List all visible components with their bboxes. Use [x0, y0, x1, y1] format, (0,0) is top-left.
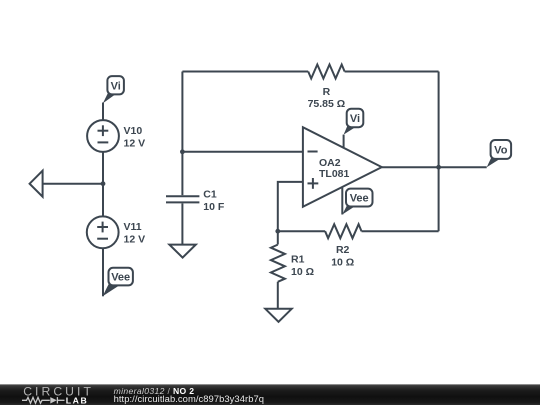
resistor R [308, 65, 344, 79]
wire plus input [278, 182, 303, 231]
CircuitLab logo resistor-diode glyph [22, 397, 65, 403]
svg-text:10 Ω: 10 Ω [291, 266, 314, 278]
ground (left) [30, 171, 103, 197]
net flag Vee (left source) [103, 268, 133, 296]
resistor R1 [271, 231, 285, 308]
voltage source V10 [87, 120, 119, 152]
svg-text:75.85 Ω: 75.85 Ω [308, 98, 346, 110]
wire V11-to-Vee [102, 248, 104, 296]
net flag Vo [487, 140, 511, 167]
svg-text:LAB: LAB [66, 395, 89, 405]
net flag Vi (left source) [103, 76, 124, 103]
net flag Vee (op-amp V- pin) [342, 188, 372, 215]
wire V10-to-V11 [102, 152, 104, 217]
wire right vertical upper [438, 72, 440, 168]
svg-text:Vi: Vi [350, 113, 360, 125]
svg-text:R1: R1 [291, 253, 305, 265]
node junction cap/minus [180, 149, 185, 154]
label C1 10F [203, 189, 225, 213]
label OA2 TL081 [319, 157, 350, 180]
svg-text:V10: V10 [124, 125, 143, 137]
node junction at V10/V11/gnd [101, 181, 106, 186]
capacitor C1 [166, 152, 199, 245]
svg-text:C1: C1 [203, 189, 217, 201]
wire top feedback right [345, 71, 439, 73]
voltage source V11 [87, 216, 119, 248]
wire top feedback left [182, 71, 308, 73]
label R2 10ohm [331, 244, 354, 268]
svg-text:12 V: 12 V [124, 233, 146, 245]
svg-text:R2: R2 [336, 244, 350, 256]
svg-text:10 F: 10 F [203, 201, 225, 213]
wire top-left vertical [181, 72, 183, 152]
svg-text:OA2: OA2 [319, 157, 341, 169]
op-amp OA2 [303, 127, 382, 207]
ground (below C1) [169, 245, 195, 258]
node junction R1/R2 [275, 229, 280, 234]
label R1 10ohm [291, 253, 314, 277]
svg-text:Vi: Vi [111, 80, 121, 92]
svg-text:10 Ω: 10 Ω [331, 257, 354, 269]
wire Vi-to-V10 [102, 103, 104, 121]
label R 75.85 [308, 86, 346, 110]
svg-text:TL081: TL081 [319, 168, 350, 180]
resistor R2 [278, 224, 439, 238]
svg-text:Vo: Vo [494, 145, 508, 157]
wire right vertical lower [438, 167, 440, 231]
footer bar [0, 384, 540, 405]
net flag Vi (op-amp V+ pin) [344, 109, 364, 149]
wire output [382, 166, 487, 168]
svg-text:Vee: Vee [350, 193, 369, 205]
ground (below R1) [265, 309, 291, 322]
svg-text:Vee: Vee [111, 272, 130, 284]
label V11 12V [124, 221, 146, 245]
wire minus input [182, 151, 303, 153]
node junction output [436, 165, 441, 170]
label V10 12V [124, 125, 146, 149]
svg-text:12 V: 12 V [124, 138, 146, 150]
svg-text:http://circuitlab.com/c897b3y3: http://circuitlab.com/c897b3y34rb7q [114, 393, 264, 404]
svg-text:V11: V11 [124, 221, 142, 233]
svg-text:R: R [323, 86, 331, 98]
